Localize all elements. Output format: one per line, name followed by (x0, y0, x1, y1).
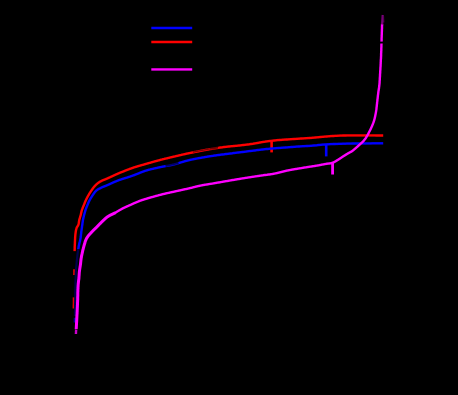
blue curve tail navy blob (74, 318, 76, 323)
red tick marker on red curve (270, 141, 273, 152)
legend blue line (151, 27, 192, 29)
magenta tick marker on magenta curve (331, 163, 334, 175)
red curve tail dash 2 (73, 297, 75, 308)
legend red line (151, 41, 192, 43)
red curve main (75, 135, 384, 251)
blue curve tail navy part (75, 250, 78, 316)
magenta curve upper part (114, 24, 382, 214)
legend magenta line (151, 68, 192, 70)
blue tick marker on blue curve (325, 144, 328, 156)
black curve artifact thin line under red (193, 149, 210, 152)
black curve artifact over red segment (210, 147, 218, 148)
magenta spike dim tip second streak (382, 16, 384, 23)
magenta spike dim tip (381, 15, 384, 25)
black curve artifact over blue segment (166, 163, 179, 166)
magenta curve dim bottom tip (75, 330, 78, 334)
blue curve main (78, 143, 383, 249)
magenta curve steep lower part (76, 213, 115, 330)
red curve tail dash 1 (73, 269, 75, 275)
black dash gap crossing magenta spike (379, 42, 386, 44)
